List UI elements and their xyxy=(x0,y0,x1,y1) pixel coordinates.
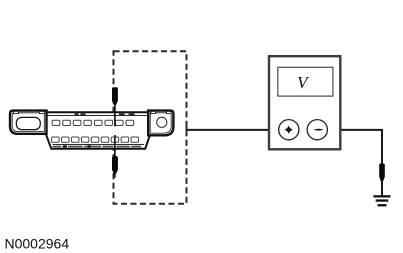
right ear notch right xyxy=(167,111,172,113)
ground symbol xyxy=(374,195,391,206)
top test probe body xyxy=(112,87,118,105)
right ear inner outline xyxy=(150,113,171,133)
wire from voltmeter - lead to ground drop xyxy=(327,129,383,131)
voltmeter U1 xyxy=(269,56,340,149)
top edge tick marks xyxy=(75,113,135,115)
left ear notch left xyxy=(14,111,19,113)
left mounting ear xyxy=(10,111,47,134)
wire vertical drop to ground xyxy=(381,129,383,196)
bottom strip bars xyxy=(53,146,142,148)
connector J1 (data link connector) xyxy=(10,111,173,149)
connector body xyxy=(46,112,150,149)
lower pin row (9 pins) xyxy=(52,137,139,142)
voltmeter display window xyxy=(278,67,333,96)
voltmeter + terminal xyxy=(279,120,299,140)
dashed harness box xyxy=(114,51,187,204)
bottom strip line xyxy=(53,143,145,145)
right ear notch left xyxy=(151,111,156,113)
right mounting ear xyxy=(148,111,173,136)
bottom test probe lead wire xyxy=(114,135,116,178)
left ear inner outline xyxy=(12,113,44,132)
left ear oval hole xyxy=(16,117,40,129)
voltmeter - terminal xyxy=(307,120,327,140)
wire from connector to voltmeter + lead xyxy=(187,129,280,131)
dashed box junction dash at wire xyxy=(186,125,188,136)
left ear notch right xyxy=(40,111,45,113)
voltmeter case xyxy=(269,56,340,149)
body top inner line xyxy=(47,114,149,116)
svg-text:N0002964: N0002964 xyxy=(5,236,70,252)
upper pin row (8 pins) xyxy=(52,120,133,125)
top test probe lead wire xyxy=(114,103,116,127)
right ear hole circle xyxy=(157,117,167,127)
bottom test probe body xyxy=(112,156,118,174)
ground probe body xyxy=(379,164,385,182)
